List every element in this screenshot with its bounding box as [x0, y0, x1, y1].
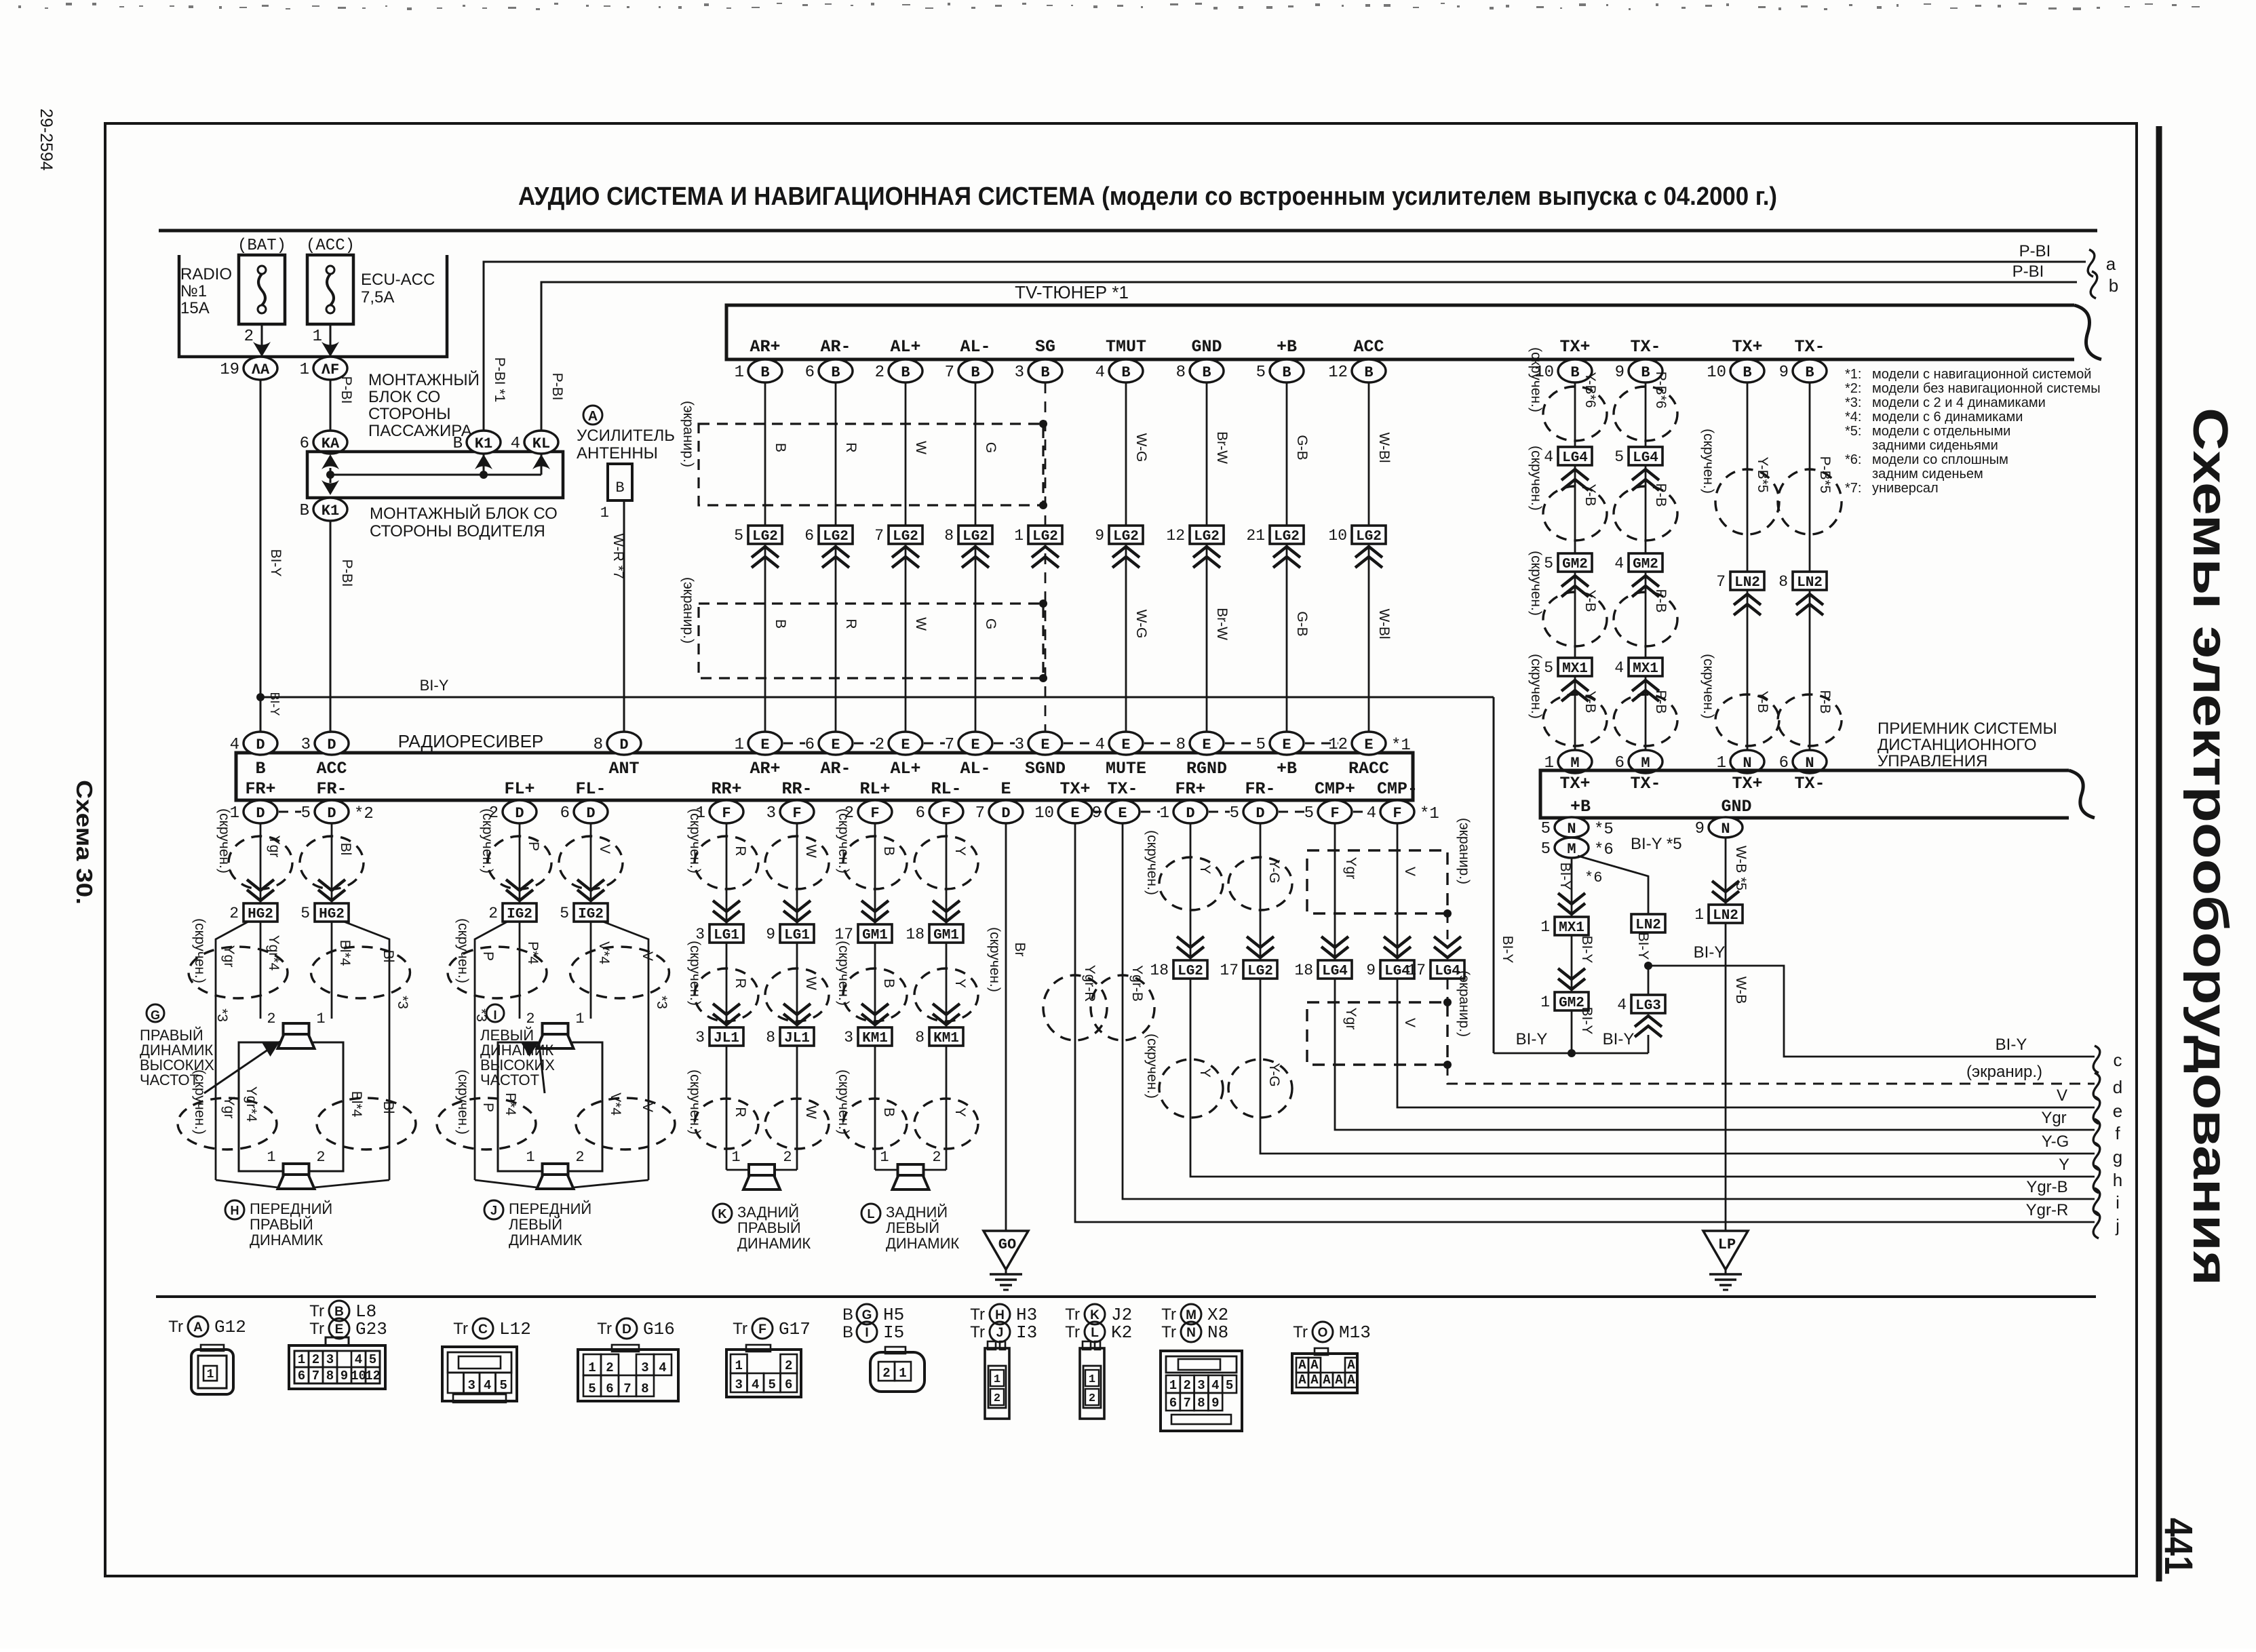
- svg-text:CMP-: CMP-: [1377, 779, 1418, 799]
- svg-text:D: D: [622, 1322, 631, 1337]
- svg-text:*7:: *7:: [1845, 481, 1861, 496]
- svg-text:P: P: [480, 951, 496, 961]
- svg-text:Tr: Tr: [597, 1320, 612, 1338]
- woofer elbows: [475, 1180, 537, 1187]
- svg-text:Tr: Tr: [1065, 1305, 1080, 1324]
- connector 6-KA: [313, 431, 347, 454]
- connector 6-D bottom: [574, 800, 608, 823]
- svg-text:LN2: LN2: [1713, 908, 1738, 924]
- connector 3-KM1: [861, 1014, 889, 1025]
- svg-text:9: 9: [1211, 1396, 1219, 1411]
- svg-text:1: 1: [1169, 1378, 1177, 1393]
- connector 4-E: [1109, 732, 1143, 755]
- connector 5-D bottom: [1243, 800, 1277, 823]
- connector 5-F bottom: [1318, 800, 1352, 823]
- svg-text:M13: M13: [1339, 1322, 1371, 1343]
- svg-text:V: V: [640, 951, 655, 961]
- svg-text:MX1: MX1: [1559, 920, 1584, 936]
- svg-text:LG4: LG4: [1384, 964, 1410, 979]
- connector 10-B TX+2: [1730, 359, 1764, 382]
- svg-text:5: 5: [588, 1381, 596, 1396]
- connector 12-E: [1352, 732, 1386, 755]
- connector 4-B TMUT: [1109, 359, 1143, 382]
- svg-text:21: 21: [1246, 527, 1265, 545]
- svg-text:I3: I3: [1016, 1322, 1037, 1343]
- svg-text:B: B: [453, 435, 463, 453]
- svg-text:B: B: [1282, 364, 1291, 381]
- shield box 1: [699, 424, 1043, 505]
- svg-text:A: A: [1310, 1358, 1319, 1373]
- svg-text:БЛОК СО: БЛОК СО: [368, 388, 440, 406]
- svg-text:W-B: W-B: [1733, 977, 1749, 1004]
- svg-text:F: F: [1330, 805, 1339, 822]
- twisted pair Y/Y-G r2: [1159, 1059, 1223, 1118]
- svg-text:Ygr: Ygr: [267, 835, 282, 858]
- connector 17-GM1: [861, 911, 889, 922]
- tweeter G: [284, 1023, 309, 1034]
- connector 8-LG2 AL-: [958, 526, 992, 544]
- connector 7-E: [958, 732, 992, 755]
- svg-text:2: 2: [875, 363, 884, 382]
- svg-text:задними сиденьями: задними сиденьями: [1872, 438, 1998, 453]
- svg-text:P-BI: P-BI: [2012, 262, 2044, 281]
- svg-text:P-B: P-B: [1653, 483, 1669, 507]
- svg-text:8: 8: [641, 1381, 648, 1396]
- svg-text:E: E: [1070, 805, 1079, 822]
- svg-text:Схема 30.: Схема 30.: [72, 780, 97, 905]
- svg-text:N: N: [1721, 821, 1730, 838]
- svg-text:B: B: [1121, 364, 1130, 381]
- svg-text:Схемы электрооборудования: Схемы электрооборудования: [2183, 408, 2237, 1286]
- svg-text:(скручен.): (скручен.): [1700, 654, 1716, 719]
- svg-text:A: A: [1347, 1373, 1355, 1388]
- connector 10-LG2 ACC: [1352, 526, 1386, 544]
- svg-text:B: B: [971, 364, 979, 381]
- connector 3-JL1: [713, 1014, 740, 1025]
- connector 5-LG4 colB: [1629, 447, 1662, 465]
- svg-text:ACC: ACC: [1353, 337, 1384, 357]
- svg-text:7: 7: [874, 527, 884, 545]
- svg-text:F: F: [792, 805, 801, 822]
- twisted pair Y-B/P-B row3: [1543, 592, 1607, 646]
- svg-text:2: 2: [994, 1392, 1000, 1405]
- svg-text:D: D: [515, 805, 524, 822]
- dashed link 9E-1D: [1141, 811, 1160, 813]
- svg-text:9: 9: [1779, 363, 1789, 382]
- svg-text:4: 4: [484, 1378, 491, 1393]
- svg-text:5: 5: [1256, 363, 1266, 382]
- wire P-BI*1: [484, 262, 2086, 431]
- connector 4-D B: [244, 732, 277, 755]
- wire BI-Y jog: [1648, 966, 2095, 1057]
- svg-text:BI-Y: BI-Y: [1579, 1007, 1595, 1035]
- svg-text:LG2: LG2: [1247, 964, 1273, 979]
- svg-text:Ygr-R: Ygr-R: [2026, 1201, 2069, 1219]
- svg-text:LG2: LG2: [1178, 964, 1203, 979]
- connector 5-IG2: [577, 890, 604, 901]
- svg-text:АНТЕННЫ: АНТЕННЫ: [577, 444, 658, 463]
- svg-text:8: 8: [1778, 573, 1788, 591]
- svg-text:A: A: [1298, 1358, 1306, 1373]
- svg-text:B: B: [901, 364, 910, 381]
- svg-text:12: 12: [1166, 527, 1185, 545]
- svg-text:HG2: HG2: [319, 907, 345, 922]
- svg-text:1: 1: [316, 1010, 325, 1027]
- connector 6-B AR-: [819, 359, 853, 382]
- svg-text:IG2: IG2: [578, 907, 604, 922]
- svg-text:W-Bl: W-Bl: [1376, 608, 1392, 639]
- wires rear K: [726, 823, 728, 1170]
- svg-text:18: 18: [906, 926, 925, 943]
- svg-text:17: 17: [1407, 962, 1426, 979]
- svg-text:6: 6: [916, 804, 925, 823]
- shield box 2: [699, 604, 1043, 678]
- svg-text:Y-B*6: Y-B*6: [1582, 372, 1598, 408]
- svg-text:18: 18: [1150, 962, 1169, 979]
- svg-text:TX-: TX-: [1630, 337, 1660, 357]
- svg-text:УПРАВЛЕНИЯ: УПРАВЛЕНИЯ: [1878, 752, 1987, 770]
- connector 5-E: [1270, 732, 1304, 755]
- svg-text:Y-B: Y-B: [1582, 690, 1598, 713]
- wire fuse BAT to bus: [261, 324, 263, 357]
- svg-text:(скручен.): (скручен.): [836, 941, 851, 1006]
- svg-text:(экранир.): (экранир.): [680, 401, 696, 467]
- connector 4-MX1 colB: [1629, 658, 1662, 676]
- connector 1-GM2: [1558, 979, 1585, 989]
- twisted pair row3 P: [437, 1098, 536, 1149]
- svg-text:TX+: TX+: [1559, 774, 1590, 793]
- svg-text:FR-: FR-: [316, 779, 347, 799]
- svg-text:A: A: [1347, 1358, 1355, 1373]
- svg-text:GM2: GM2: [1633, 557, 1658, 572]
- twisted pair Y-B/P-B row2: [1543, 486, 1607, 540]
- svg-text:d: d: [2113, 1077, 2122, 1097]
- svg-text:KM1: KM1: [862, 1031, 888, 1046]
- TV tuner box: [726, 305, 2101, 359]
- svg-text:7: 7: [975, 804, 985, 823]
- fuse RADIO No1 15A: [239, 255, 285, 324]
- dashed link: [994, 743, 1015, 745]
- connector 1-MX1: [1558, 903, 1585, 914]
- svg-text:Tr: Tr: [1293, 1323, 1308, 1341]
- svg-text:Ygr-B: Ygr-B: [1129, 965, 1145, 1002]
- svg-text:L: L: [868, 1207, 875, 1221]
- connector 3-F bottom: [780, 800, 814, 823]
- svg-text:(ACC): (ACC): [306, 237, 355, 255]
- connector 2-HG2: [247, 890, 274, 901]
- svg-text:15A: 15A: [180, 299, 210, 317]
- svg-text:Y: Y: [1197, 1068, 1213, 1078]
- svg-text:4: 4: [1211, 1378, 1219, 1393]
- svg-text:универсал: универсал: [1872, 481, 1939, 496]
- title rule: [159, 229, 2097, 233]
- svg-text:TX-: TX-: [1794, 337, 1825, 357]
- svg-text:7: 7: [312, 1369, 319, 1383]
- svg-text:FR+: FR+: [245, 779, 275, 799]
- svg-text:B: B: [1202, 364, 1211, 381]
- svg-text:5: 5: [1541, 840, 1551, 859]
- svg-text:9: 9: [1695, 820, 1705, 838]
- svg-text:P-BI: P-BI: [2019, 242, 2051, 260]
- svg-text:TX+: TX+: [1059, 779, 1090, 799]
- junction block arrows: [322, 454, 339, 469]
- svg-text:7: 7: [1183, 1396, 1190, 1411]
- woofer speaker H: [284, 1164, 309, 1175]
- svg-text:2: 2: [875, 736, 884, 754]
- connector 2-B AL+: [889, 359, 922, 382]
- svg-text:Y-G: Y-G: [2042, 1133, 2069, 1151]
- svg-text:+B: +B: [1277, 759, 1297, 779]
- svg-text:I5: I5: [883, 1322, 904, 1343]
- svg-text:3: 3: [766, 804, 776, 823]
- svg-text:LP: LP: [1718, 1236, 1736, 1253]
- svg-text:9: 9: [1366, 962, 1376, 979]
- svg-text:ЧАСТОТ: ЧАСТОТ: [480, 1071, 539, 1088]
- connector 6-LG2 AR-: [819, 526, 853, 544]
- svg-text:LG2: LG2: [1032, 529, 1058, 545]
- connector 5-GM2 colA: [1558, 553, 1592, 572]
- tweeter pointer arrow: [204, 1042, 280, 1093]
- svg-text:Y: Y: [952, 979, 968, 988]
- svg-text:J: J: [996, 1326, 1004, 1340]
- twisted pair Y-B/P-B colCD: [1715, 694, 1779, 746]
- svg-text:2: 2: [244, 328, 254, 346]
- wire TX+ down: [1075, 823, 2095, 1222]
- svg-text:LG2: LG2: [962, 529, 988, 545]
- connector 9-E bottom: [1106, 800, 1140, 823]
- svg-text:E: E: [1041, 736, 1049, 753]
- twisted pair Y-B*6/P-B*6: [1543, 387, 1607, 441]
- svg-text:V: V: [1402, 867, 1418, 876]
- svg-text:A: A: [1298, 1373, 1306, 1388]
- dashed link: [1305, 743, 1338, 745]
- wire BI-Y from 19A: [260, 380, 262, 732]
- svg-text:6: 6: [606, 1381, 613, 1396]
- label rear speaker L: [861, 1204, 880, 1223]
- svg-text:G-B: G-B: [1294, 435, 1310, 460]
- svg-text:(скручен.): (скручен.): [1528, 654, 1544, 719]
- svg-text:G: G: [983, 618, 998, 629]
- svg-text:V*4: V*4: [596, 941, 612, 964]
- svg-text:LN2: LN2: [1797, 575, 1823, 591]
- svg-text:*6: *6: [1584, 869, 1602, 886]
- svg-text:CMP+: CMP+: [1315, 779, 1355, 799]
- svg-text:B: B: [1805, 364, 1814, 381]
- svg-text:(скручен.): (скручен.): [455, 918, 471, 983]
- svg-text:4: 4: [355, 1352, 362, 1367]
- svg-text:4: 4: [1544, 448, 1553, 466]
- svg-text:(скручен.): (скручен.): [1144, 1034, 1160, 1099]
- svg-text:5: 5: [560, 905, 569, 922]
- connector 7-D bottom: [989, 800, 1023, 823]
- fuse ECU-ACC 7.5A: [307, 255, 353, 324]
- svg-text:6: 6: [804, 527, 814, 545]
- connector 12-LG2 GND: [1190, 526, 1224, 544]
- svg-text:TX-: TX-: [1630, 774, 1660, 793]
- svg-text:BI-Y: BI-Y: [1996, 1036, 2027, 1054]
- svg-text:17: 17: [1220, 962, 1239, 979]
- wire BI-Y right vertical: [1493, 697, 1495, 1053]
- svg-text:P*4: P*4: [525, 941, 541, 964]
- svg-text:GO: GO: [998, 1236, 1016, 1253]
- twisted pair Y-B/P-B row4: [1543, 694, 1607, 746]
- svg-text:1: 1: [313, 328, 322, 346]
- svg-text:5: 5: [301, 804, 311, 823]
- svg-text:5: 5: [734, 527, 743, 545]
- svg-text:AR+: AR+: [750, 759, 780, 779]
- svg-text:1: 1: [731, 1149, 740, 1166]
- svg-text:SGND: SGND: [1025, 759, 1066, 779]
- svg-text:C: C: [478, 1322, 488, 1337]
- connector 3-B SG: [1028, 359, 1062, 382]
- dashed link: [1144, 743, 1176, 745]
- twisted pair Ygr/Bl row1: [229, 836, 292, 889]
- svg-text:(скручен.): (скручен.): [687, 941, 703, 1006]
- svg-text:B: B: [760, 364, 769, 381]
- svg-text:РАДИОРЕСИВЕР: РАДИОРЕСИВЕР: [398, 731, 544, 751]
- connector 4-LG4 colA: [1558, 447, 1592, 465]
- svg-text:ЛЕВЫЙ: ЛЕВЫЙ: [886, 1219, 939, 1236]
- svg-text:KM1: KM1: [933, 1031, 959, 1046]
- svg-text:MX1: MX1: [1562, 661, 1588, 677]
- connector 1-LN2: [1709, 905, 1743, 923]
- svg-text:MUTE: MUTE: [1106, 759, 1146, 779]
- svg-text:P-BI *1: P-BI *1: [492, 357, 507, 403]
- svg-text:f: f: [2115, 1123, 2120, 1143]
- svg-text:3: 3: [468, 1378, 475, 1393]
- shield wire dashed: [1447, 913, 1449, 943]
- label tweeter G: [147, 1004, 164, 1022]
- svg-text:V: V: [640, 1103, 655, 1112]
- twisted pair Y-B*5/P-B*5: [1715, 469, 1779, 534]
- svg-text:G-B: G-B: [1294, 611, 1310, 636]
- rear speaker K: [726, 1169, 749, 1171]
- svg-text:AL+: AL+: [890, 337, 920, 357]
- svg-text:8: 8: [1197, 1396, 1205, 1411]
- svg-text:2: 2: [1183, 1378, 1190, 1393]
- svg-text:3: 3: [301, 736, 311, 754]
- rear speaker L: [875, 1169, 898, 1171]
- svg-text:4: 4: [1367, 804, 1376, 823]
- svg-text:9: 9: [1095, 527, 1104, 545]
- connector 9-B TX-: [1629, 359, 1662, 382]
- svg-text:AL-: AL-: [960, 337, 990, 357]
- svg-text:1: 1: [735, 736, 744, 754]
- svg-text:8: 8: [944, 527, 954, 545]
- svg-text:W: W: [803, 1105, 819, 1119]
- svg-text:E: E: [831, 736, 840, 753]
- svg-text:(скручен.): (скручен.): [687, 1069, 703, 1135]
- connector 5-M: [1555, 838, 1589, 858]
- svg-text:AR+: AR+: [750, 337, 780, 357]
- svg-text:L12: L12: [499, 1319, 531, 1339]
- tweeter pointer arrow: [539, 1042, 545, 1093]
- svg-text:МОНТАЖНЫЙ: МОНТАЖНЫЙ: [368, 370, 480, 389]
- svg-text:МОНТАЖНЫЙ БЛОК СО: МОНТАЖНЫЙ БЛОК СО: [370, 504, 558, 523]
- svg-text:A: A: [588, 409, 598, 424]
- svg-text:ACC: ACC: [316, 759, 347, 779]
- connector 4-KL: [524, 431, 558, 454]
- svg-text:FR-: FR-: [1245, 779, 1275, 799]
- twisted pair Ygr-R/Ygr-B: [1043, 975, 1107, 1040]
- connector 4-F bottom: [1380, 800, 1414, 823]
- svg-text:3: 3: [735, 1377, 743, 1392]
- connector 3-E: [1028, 732, 1062, 755]
- svg-text:задним сиденьем: задним сиденьем: [1872, 467, 1983, 481]
- svg-text:6: 6: [560, 804, 570, 823]
- svg-text:B: B: [881, 1107, 897, 1117]
- svg-text:(скручен.): (скручен.): [687, 808, 703, 873]
- svg-text:10: 10: [1707, 363, 1726, 382]
- svg-text:AR-: AR-: [820, 337, 851, 357]
- svg-text:H: H: [995, 1308, 1005, 1322]
- svg-text:*1: *1: [1420, 805, 1439, 823]
- svg-text:5: 5: [1226, 1378, 1233, 1393]
- svg-text:Ygr*4: Ygr*4: [266, 935, 281, 971]
- svg-text:Ygr-B: Ygr-B: [2026, 1178, 2067, 1196]
- svg-text:*5:: *5:: [1845, 424, 1861, 439]
- svg-text:G: G: [983, 442, 998, 453]
- svg-text:Y-B*5: Y-B*5: [1755, 457, 1770, 493]
- svg-text:5: 5: [1304, 804, 1314, 823]
- svg-text:N8: N8: [1207, 1322, 1228, 1343]
- svg-text:12: 12: [1328, 363, 1348, 382]
- svg-text:G: G: [151, 1008, 160, 1022]
- svg-text:*6: *6: [1594, 841, 1614, 859]
- svg-text:1: 1: [207, 1368, 214, 1381]
- twisted pair R/W r1: [695, 836, 758, 889]
- svg-text:AL+: AL+: [890, 759, 920, 779]
- svg-text:IG2: IG2: [507, 907, 532, 922]
- label speaker J: [484, 1200, 503, 1219]
- wire ACC tuner to receiver: [1368, 382, 1370, 732]
- svg-text:P: P: [526, 842, 541, 851]
- ground GO: [984, 1231, 1028, 1270]
- svg-text:F: F: [870, 805, 879, 822]
- svg-text:BI-Y: BI-Y: [1694, 943, 1726, 962]
- svg-text:Ygr: Ygr: [221, 1097, 237, 1119]
- svg-text:Tr: Tr: [453, 1320, 468, 1338]
- svg-text:D: D: [1186, 805, 1194, 822]
- svg-text:A: A: [1335, 1373, 1343, 1388]
- twisted pair Y/Y-G r1: [1159, 857, 1223, 910]
- wire fuse ACC to bus: [330, 324, 332, 357]
- svg-text:+B: +B: [1570, 797, 1591, 817]
- svg-text:TX-: TX-: [1107, 779, 1137, 799]
- svg-text:P-B: P-B: [1653, 690, 1669, 713]
- svg-text:1: 1: [600, 505, 609, 522]
- svg-text:УСИЛИТЕЛЬ: УСИЛИТЕЛЬ: [577, 427, 675, 445]
- dashed link: [854, 743, 875, 745]
- connector 17-LG2 fr: [1247, 947, 1274, 958]
- svg-text:I: I: [865, 1326, 868, 1340]
- svg-text:D: D: [327, 805, 336, 822]
- svg-text:ДИНАМИК: ДИНАМИК: [737, 1235, 811, 1252]
- svg-text:c: c: [2114, 1050, 2122, 1070]
- svg-text:BI-Y: BI-Y: [268, 549, 284, 577]
- svg-text:1: 1: [735, 1358, 743, 1373]
- svg-text:W-G: W-G: [1133, 433, 1149, 463]
- svg-text:(скручен.): (скручен.): [1528, 446, 1544, 511]
- svg-text:LG2: LG2: [1113, 529, 1139, 545]
- dashed link 1D-5D b: [1209, 811, 1230, 813]
- svg-text:4: 4: [511, 435, 520, 453]
- svg-text:P-BI: P-BI: [339, 559, 355, 587]
- twisted pair row3 Ygr: [178, 1098, 277, 1149]
- svg-text:ANT: ANT: [608, 759, 639, 779]
- svg-text:2: 2: [229, 905, 239, 922]
- svg-text:P-B: P-B: [1817, 690, 1833, 713]
